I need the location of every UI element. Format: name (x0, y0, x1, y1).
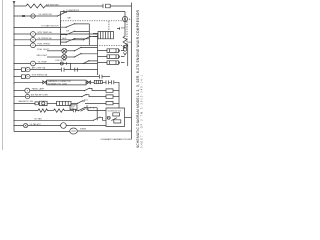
row14 switch (82, 95, 106, 97)
resistor R1 top row (14, 4, 45, 8)
connector stack A3 (98, 61, 119, 65)
row10 circle (26, 67, 30, 71)
svg-text:AIR COMP GA: AIR COMP GA (32, 67, 46, 70)
dashed notch edge (108, 21, 110, 31)
svg-text:LOW OIL SW: LOW OIL SW (55, 60, 66, 62)
feed wire to ammeter (61, 11, 126, 13)
row16 connector bars (73, 109, 75, 112)
svg-text:OIL PRESS GA: OIL PRESS GA (38, 37, 53, 40)
svg-text:SHEET 1 OF 2 TM 5-3805-248-1: SHEET 1 OF 2 TM 5-3805-248-14-1 (142, 74, 144, 148)
svg-text:AIR RELIEF LIGHT: AIR RELIEF LIGHT (31, 94, 49, 97)
gen lamp switch (75, 54, 98, 57)
box inner switch (111, 118, 117, 121)
stack B2 connector (106, 89, 113, 92)
ignition feed drop (60, 12, 62, 46)
svg-text:SIREN: SIREN (80, 129, 87, 131)
harness text box (47, 80, 86, 85)
row15 small box (35, 102, 38, 105)
row17 switch (94, 117, 107, 120)
harness bowtie valve (14, 81, 43, 83)
connector tick (63, 10, 65, 13)
resistor block in box (98, 32, 114, 39)
wire to fuse (45, 5, 103, 7)
voltage regulator box (70, 105, 77, 110)
svg-text:OIL PAN HTR: OIL PAN HTR (30, 123, 42, 126)
box output wire (125, 117, 132, 119)
mid collector rail (97, 34, 99, 75)
svg-text:GEN LIGHT: GEN LIGHT (36, 55, 48, 57)
svg-text:OIL PAN: OIL PAN (34, 118, 42, 121)
row9 inline terminal circle (60, 62, 63, 65)
row18 sender circle (61, 123, 67, 129)
row4 gauge circle (14, 33, 31, 35)
row13 circle (14, 90, 25, 92)
svg-text:GEN: GEN (62, 38, 67, 40)
row2 inline blob component (22, 15, 25, 17)
fuel lamp switch (75, 47, 98, 50)
ignition switch dashed box (61, 21, 128, 46)
svg-text:SW: SW (108, 118, 111, 120)
regulator drop wire (96, 108, 98, 121)
row11 circle (26, 74, 30, 78)
row2 switch blade (58, 12, 66, 16)
stack B3 connector (106, 95, 113, 98)
row9 tick (66, 62, 68, 64)
row16 wire (14, 110, 38, 112)
svg-text:SOLENOID VLV: SOLENOID VLV (108, 110, 122, 112)
hatched relay block (94, 80, 102, 83)
row13 switch (85, 88, 106, 90)
box inner circle (107, 116, 110, 119)
wire fuse to ammeter rail (110, 5, 131, 7)
gen lamp row wire (47, 56, 62, 58)
row10 breaker square (14, 69, 21, 71)
stack B4 connector (106, 101, 113, 104)
row15 wire (14, 102, 35, 104)
capacitor caps (112, 80, 120, 84)
row11 capacitor (100, 75, 103, 79)
row11 breaker square (14, 76, 21, 78)
connector stack A2 (98, 55, 119, 59)
regulator link wire (89, 107, 98, 109)
row16 switch (79, 108, 106, 111)
row18 heater sender circle (23, 123, 27, 127)
regulator blade 2 (81, 109, 86, 112)
svg-text:WTR TEMP GA: WTR TEMP GA (38, 31, 53, 34)
svg-text:SCHEMATIC DIAGRAM MODELS 2, 3,: SCHEMATIC DIAGRAM MODELS 2, 3, SER. 8-27… (136, 9, 140, 148)
row17 wire (14, 119, 93, 121)
bottom equipment box (106, 108, 125, 127)
row5 switch (84, 36, 98, 39)
valve bowtie 2 (86, 81, 94, 84)
fuse F1 (103, 4, 110, 8)
row2 sender circle (31, 14, 35, 18)
far right rail (131, 3, 133, 140)
right collector rail C (123, 45, 128, 67)
row15 solenoid housing (40, 101, 48, 105)
resistor row16 b (54, 109, 66, 112)
row15 hatched box (57, 101, 71, 105)
row6 gauge circle (14, 44, 31, 46)
svg-text:FUEL PRESS: FUEL PRESS (38, 43, 51, 45)
resistor on ammeter rail (123, 31, 127, 48)
ignition collector rail (88, 24, 90, 45)
row2 wire (14, 15, 57, 17)
row19 horn oval (70, 128, 78, 134)
svg-text:RES: RES (128, 42, 133, 44)
resistor row16 a (38, 109, 49, 112)
svg-text:TO AMMETER: TO AMMETER (66, 9, 80, 12)
gen lamp (62, 55, 67, 60)
svg-text:FUEL LIGHT: FUEL LIGHT (37, 49, 49, 51)
row9 gauge circle (14, 63, 31, 65)
fuel lamp row wire (47, 50, 62, 52)
ignition contact 2 (61, 31, 90, 35)
ignition contact 1 (61, 24, 90, 28)
ammeter A (122, 16, 127, 21)
battery terminal connector (117, 27, 120, 30)
row18 wire (14, 125, 61, 127)
svg-text:TO START MOTOR: TO START MOTOR (41, 24, 59, 27)
svg-text:OIL SNDR SW: OIL SNDR SW (39, 14, 52, 16)
power bus arrow (13, 1, 16, 4)
left page border line (2, 0, 4, 150)
chevron terminal (123, 52, 126, 55)
row10 capacitor (62, 68, 65, 72)
svg-text:OIL TEMP: OIL TEMP (38, 62, 48, 64)
svg-text:MAGNETIC SW: MAGNETIC SW (19, 100, 33, 103)
svg-text:WTR PRESS GA: WTR PRESS GA (32, 74, 48, 77)
ammeter rail (124, 12, 126, 32)
svg-text:AIR HTR RES: AIR HTR RES (46, 3, 59, 6)
regulator tick (86, 105, 88, 110)
fuel lamp (62, 48, 67, 53)
svg-text:PANEL LAMP: PANEL LAMP (32, 88, 45, 91)
row5 gauge circle (14, 39, 31, 41)
box inner connector 2 (114, 120, 121, 123)
main vertical bus (13, 3, 15, 131)
svg-text:SCHEMATIC DIAGRAM 3-71 ENG: SCHEMATIC DIAGRAM 3-71 ENG (101, 138, 132, 141)
connector bars (102, 80, 111, 84)
stack B drop rail (118, 82, 120, 108)
svg-text:ASSEMBLY NO. 12345: ASSEMBLY NO. 12345 (48, 82, 67, 85)
row19 bottom wire (14, 131, 70, 133)
row10 capacitor 2 (75, 68, 78, 72)
box inner connector 1 (113, 113, 120, 116)
row9 second switch (84, 61, 98, 64)
row15 switch (71, 101, 85, 104)
connector stack A1 (98, 49, 119, 53)
row9 drop to row10 (70, 64, 72, 70)
row3 wire to ignition box (14, 27, 61, 29)
row14 circle (14, 96, 25, 98)
ignition contact 3 (61, 39, 90, 43)
junction dots on bus (13, 15, 14, 126)
terminal circle (123, 48, 126, 51)
